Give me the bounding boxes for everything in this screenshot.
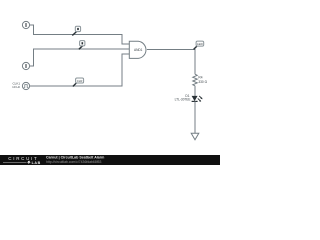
switch SW3 toggle box "CLR" (76, 78, 84, 83)
footer CircuitLab logo: rule + bolt + LAB (3, 161, 27, 163)
svg-text:LAB: LAB (32, 161, 41, 165)
svg-text:AND1: AND1 (134, 48, 143, 52)
wire from V2 to AND1 input 2 (30, 49, 130, 66)
digital input V2 state label "1" (26, 64, 27, 68)
digital input V2 (22, 62, 29, 69)
LED D1 triangle (192, 96, 198, 101)
svg-text:LTL-307EE: LTL-307EE (175, 98, 191, 102)
AND gate AND1 (129, 41, 146, 58)
digital input V1 (22, 21, 29, 28)
svg-text:330 Ω: 330 Ω (198, 80, 207, 84)
switch SW3 lever (73, 83, 77, 87)
wire resistor to LED D1 (194, 86, 196, 96)
LED indicator box (196, 41, 204, 46)
svg-text:Carnut | CircuitLab Seatbelt A: Carnut | CircuitLab Seatbelt Alarm (46, 156, 104, 160)
wire AND1 output to LED branch (147, 50, 195, 75)
clock source CLK1 (22, 82, 29, 89)
wire from V1 to AND1 input 1 (30, 25, 130, 44)
digital input V1 state label "1" (26, 23, 27, 27)
svg-text:R4: R4 (198, 75, 202, 79)
LED indicator pointer (194, 46, 197, 49)
resistor R4 (193, 74, 197, 86)
switch SW2 toggle box (80, 41, 85, 46)
LED D1 emission arrows (198, 96, 203, 102)
switch SW1 lever (72, 32, 76, 36)
svg-text:LED: LED (197, 42, 203, 46)
switch SW1 toggle box (75, 26, 80, 31)
svg-text:10 Hz: 10 Hz (12, 85, 20, 89)
footer bar (0, 155, 220, 165)
wire LED to ground (194, 101, 196, 133)
switch SW2 lever (79, 45, 83, 49)
LED D1 cathode bar (192, 100, 198, 102)
svg-text:http://circuitlab.com/c/7436fd: http://circuitlab.com/c/7436fdab68f53 (46, 160, 102, 164)
svg-text:CLR: CLR (77, 79, 83, 83)
ground symbol (191, 133, 199, 140)
wire from CLK1 to AND1 input 3 (30, 54, 130, 86)
